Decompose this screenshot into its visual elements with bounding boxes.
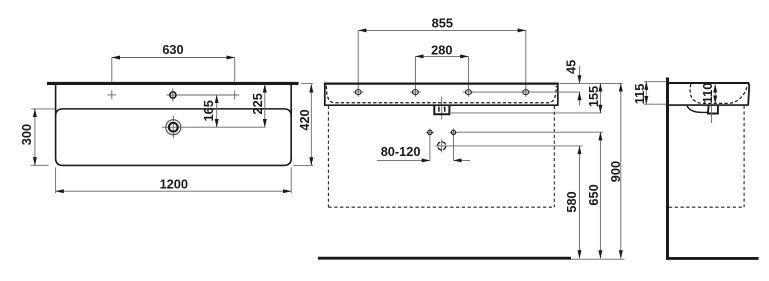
water supply symbol xyxy=(435,139,448,152)
tap hole reference line to 45 dim xyxy=(472,91,580,93)
dim 1200 extension right xyxy=(290,167,292,193)
supply reference line to 580 dim xyxy=(449,145,583,147)
svg-text:855: 855 xyxy=(432,16,453,31)
front basin right edge xyxy=(557,83,559,106)
dim 420 extension bottom xyxy=(294,164,314,166)
floor level extension line xyxy=(570,258,625,260)
plus mark left tap position xyxy=(107,90,116,99)
tap hole reference line xyxy=(179,94,239,96)
tap hole symbol 1 xyxy=(353,87,364,96)
front centerline xyxy=(441,97,443,120)
dim 1200 extension left xyxy=(55,167,57,193)
dim 280 extension left xyxy=(414,56,416,89)
dim 630 extension left xyxy=(111,58,113,82)
bolt reference line to 650 dim xyxy=(458,131,603,133)
svg-text:225: 225 xyxy=(250,93,265,114)
dim 855 extension left xyxy=(357,30,359,89)
svg-text:110: 110 xyxy=(700,83,715,104)
front installation zone dashed right xyxy=(553,106,555,207)
front floor line xyxy=(318,257,571,260)
dim 115 extension bottom xyxy=(644,103,666,105)
svg-text:1200: 1200 xyxy=(160,177,188,192)
dim 115 extension top xyxy=(644,81,666,83)
tap hole symbol 4 xyxy=(520,87,531,96)
wall line xyxy=(666,78,669,260)
tap hole centerlines xyxy=(167,88,180,101)
drain centerlines xyxy=(162,116,185,139)
dim 80-120 right line xyxy=(454,159,471,161)
plan top thick edge xyxy=(47,82,299,85)
bolt extension left down xyxy=(429,135,431,160)
front installation zone dashed bottom xyxy=(328,206,554,208)
dim 855 line xyxy=(358,29,526,31)
side installation zone dashed right xyxy=(743,106,745,208)
dim 630 extension right xyxy=(234,58,236,82)
dim 280 extension right xyxy=(467,56,469,89)
dim 80-120 left line xyxy=(377,159,430,161)
front inner bowl hidden line xyxy=(326,86,556,103)
side drain centerline xyxy=(711,106,713,123)
bolt extension right down xyxy=(453,135,455,160)
dim 45 lower line xyxy=(579,92,581,105)
side basin bottom edge xyxy=(669,104,749,106)
drain bottom reference line to 155 dim xyxy=(451,112,602,114)
front drain box inner lines xyxy=(439,107,445,112)
drain inner circle xyxy=(169,123,178,132)
dim 650 line xyxy=(599,132,601,258)
side inner bowl hidden line xyxy=(690,84,747,103)
plan outer body outline xyxy=(56,85,292,165)
dim 580 line xyxy=(579,146,581,259)
plus mark right tap position xyxy=(230,90,239,99)
dim 165 line xyxy=(216,95,218,127)
svg-text:900: 900 xyxy=(608,161,623,182)
dim 300 line xyxy=(34,109,36,165)
dim 630 line xyxy=(112,57,235,59)
dim 110 line xyxy=(714,84,716,103)
svg-text:80-120: 80-120 xyxy=(381,144,421,159)
dim 1200 line xyxy=(56,190,292,192)
dim 155 line xyxy=(599,83,601,113)
side drain outlet xyxy=(687,106,707,113)
front basin bottom edge xyxy=(324,104,558,106)
dim 420 extension top xyxy=(301,82,313,84)
side floor line xyxy=(666,257,759,260)
dim 225 line xyxy=(264,84,266,127)
svg-text:300: 300 xyxy=(19,124,34,145)
side installation zone dashed bottom xyxy=(669,206,744,208)
dim 900 line xyxy=(620,83,622,258)
dim 300 extension bottom xyxy=(31,164,49,166)
dim 855 extension right xyxy=(525,30,527,89)
dim 420 line xyxy=(310,84,312,165)
svg-text:45: 45 xyxy=(564,60,579,74)
side basin right edge xyxy=(747,83,750,105)
front basin left edge xyxy=(324,83,326,106)
svg-text:650: 650 xyxy=(586,184,601,205)
tap hole symbol 2 xyxy=(410,87,421,96)
fixing bolt hole right xyxy=(450,128,458,136)
dim 115 line xyxy=(645,82,647,105)
dim 280 line xyxy=(415,55,468,57)
front drain box xyxy=(434,106,449,114)
front basin top edge xyxy=(324,82,559,84)
tap hole symbol 3 xyxy=(463,87,474,96)
svg-text:580: 580 xyxy=(564,191,579,212)
svg-text:165: 165 xyxy=(201,100,216,121)
side basin top edge xyxy=(669,82,749,84)
front installation zone dashed left xyxy=(327,106,329,207)
dim 45 upper line xyxy=(579,66,581,83)
fixing bolt hole left xyxy=(426,128,434,136)
svg-text:280: 280 xyxy=(431,42,452,57)
top edge reference line xyxy=(560,82,623,84)
tap hole circle xyxy=(170,92,176,98)
plan inner basin top edge xyxy=(56,109,292,116)
svg-text:630: 630 xyxy=(162,42,183,57)
drain reference line xyxy=(185,126,266,128)
drain outer circle xyxy=(166,120,181,135)
svg-text:420: 420 xyxy=(297,109,312,130)
svg-text:155: 155 xyxy=(586,86,601,107)
dim 300 extension top xyxy=(31,108,55,110)
svg-text:115: 115 xyxy=(632,84,647,105)
